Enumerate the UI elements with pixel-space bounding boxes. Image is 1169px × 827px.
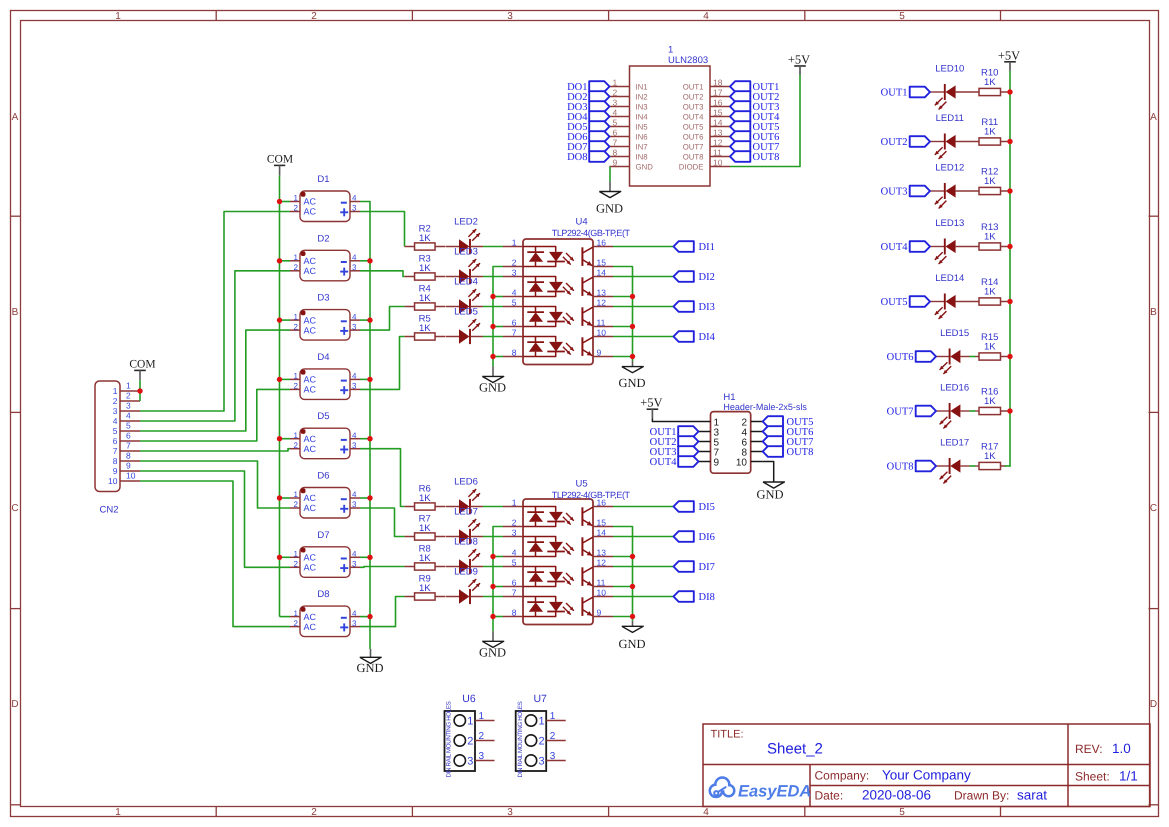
junction minus bus at D2.4 [367, 258, 372, 263]
svg-text:2: 2 [512, 257, 517, 267]
svg-text:U6: U6 [462, 693, 476, 705]
svg-text:AC: AC [304, 266, 317, 276]
LED LED2 [446, 246, 460, 248]
svg-text:LED15: LED15 [940, 328, 969, 339]
junction U5 right GND bus [630, 554, 635, 559]
optocoupler U5 TLP292-4(GB-TP,E(T body [523, 499, 593, 625]
svg-text:DI6: DI6 [699, 532, 715, 543]
svg-text:C: C [1150, 503, 1157, 514]
resistor R8 1K [405, 566, 415, 568]
resistor R17 1K [979, 462, 1001, 469]
svg-text:2: 2 [294, 441, 299, 450]
mounting holes U7 [516, 711, 547, 771]
svg-text:IN3: IN3 [636, 102, 648, 111]
ground GND (bridge bus) [370, 649, 372, 657]
svg-text:3: 3 [512, 267, 517, 277]
wire bridge minus bus to GND [360, 202, 370, 650]
svg-text:LED7: LED7 [454, 507, 478, 518]
svg-text:DI7: DI7 [699, 562, 715, 573]
ground GND (H1) [763, 482, 784, 488]
svg-text:2: 2 [294, 204, 299, 213]
junction minus bus at D5.4 [367, 436, 372, 441]
svg-text:C: C [11, 503, 18, 514]
svg-text:10: 10 [713, 157, 723, 167]
svg-text:U7: U7 [533, 693, 547, 705]
output flag OUT5 (H1) [763, 416, 783, 427]
LED LED17 [936, 465, 950, 467]
ground GND (U5 output side) [632, 621, 634, 627]
svg-text:TITLE:: TITLE: [711, 729, 744, 741]
wire LED15 to R15 [970, 356, 976, 358]
U5 channel 1 input diodes [523, 507, 556, 512]
svg-text:10: 10 [126, 471, 136, 481]
wire COM to D3.1 [280, 319, 291, 321]
junction COM at D6.1 [277, 495, 282, 500]
output flag OUT6 (H1) [763, 426, 783, 437]
svg-text:6: 6 [613, 127, 618, 137]
svg-text:3: 3 [507, 807, 513, 818]
junction +5V bus at R12 [1007, 188, 1012, 193]
svg-text:AC: AC [304, 553, 317, 563]
svg-text:D5: D5 [317, 411, 329, 422]
svg-text:11: 11 [597, 577, 606, 587]
svg-text:GND: GND [479, 381, 506, 395]
resistor R15 1K [979, 353, 1001, 360]
svg-text:1: 1 [294, 609, 299, 618]
wire +5V to H1 pin1 [652, 418, 698, 421]
LED LED12 [930, 190, 945, 192]
wire CN2.8 to D6.2 [140, 461, 290, 508]
svg-text:B: B [12, 307, 19, 318]
svg-text:13: 13 [597, 547, 607, 557]
svg-text:REV:: REV: [1075, 742, 1103, 756]
U4 channel 1 input diodes [523, 247, 556, 252]
input flag OUT3 (H1) [678, 446, 698, 457]
svg-text:10: 10 [597, 327, 607, 337]
wire U4 to DI3 [613, 306, 674, 308]
svg-text:4: 4 [352, 194, 357, 203]
title block frame [703, 724, 1150, 807]
LED LED14 [930, 301, 945, 303]
svg-text:OUT1: OUT1 [683, 82, 704, 91]
wire U4 pins 2/4/6/8 to GND bus [493, 267, 503, 367]
svg-text:AC: AC [304, 493, 317, 503]
wire LED5 to U4 pin [483, 336, 503, 338]
svg-text:9: 9 [113, 466, 118, 476]
svg-text:1K: 1K [984, 127, 996, 138]
input flag DO1 [589, 81, 609, 92]
LED LED7 [446, 536, 460, 538]
svg-text:1: 1 [294, 372, 299, 381]
svg-text:9: 9 [714, 457, 720, 468]
wire D7.3 to R8 [360, 566, 405, 569]
svg-text:1.0: 1.0 [1112, 741, 1131, 756]
input flag DO6 [589, 131, 609, 142]
svg-text:B: B [1150, 307, 1157, 318]
svg-text:AC: AC [304, 325, 317, 335]
output flag OUT7 (U1) [730, 141, 750, 152]
input flag OUT1 (right) [910, 87, 930, 98]
connector H1 body [711, 412, 751, 474]
wire U4 pins 15/13/11/9 to GND bus [613, 267, 633, 362]
wire D8.3 to R9 [360, 597, 405, 627]
svg-text:OUT8: OUT8 [787, 447, 814, 458]
wire +5V bus right column [1009, 71, 1011, 466]
H1 pins [699, 421, 711, 423]
junction minus bus at D6.4 [367, 495, 372, 500]
svg-text:2: 2 [294, 560, 299, 569]
svg-text:1: 1 [115, 11, 121, 22]
svg-text:IN8: IN8 [636, 152, 648, 161]
svg-text:AC: AC [304, 503, 317, 513]
svg-text:1: 1 [539, 715, 545, 727]
svg-text:1: 1 [294, 550, 299, 559]
frame row ticks [11, 215, 21, 217]
input flag OUT8 (right) [916, 461, 936, 472]
svg-text:10: 10 [736, 457, 748, 468]
svg-text:5: 5 [899, 11, 905, 22]
wire U5 to DI6 [613, 536, 674, 538]
svg-text:IN5: IN5 [636, 122, 649, 131]
LED LED6 [446, 506, 460, 508]
IC U1 ULN2803 body [630, 66, 711, 186]
svg-text:GND: GND [479, 645, 506, 659]
wire U5 to DI7 [613, 566, 674, 568]
svg-text:AC: AC [304, 622, 317, 632]
wire U5 to DI8 [613, 596, 674, 598]
svg-text:1: 1 [512, 237, 517, 247]
wire D1.3 to R2 [360, 212, 405, 247]
U1 left pins IN1-IN8 and GND [610, 86, 630, 88]
wire COM to D2.1 [280, 260, 291, 262]
svg-text:3: 3 [352, 560, 357, 569]
svg-text:3: 3 [113, 406, 118, 416]
svg-text:5: 5 [512, 297, 517, 307]
U4 channel 2 phototransistor [581, 277, 583, 296]
svg-text:8: 8 [613, 147, 618, 157]
resistor R2 1K [405, 246, 415, 248]
junction U4 left GND bus [490, 294, 495, 299]
svg-text:CN2: CN2 [99, 505, 118, 516]
input flag DO2 [589, 91, 609, 102]
svg-text:1: 1 [113, 386, 118, 396]
svg-text:1K: 1K [419, 263, 431, 274]
svg-text:AC: AC [304, 434, 317, 444]
LED LED15 [936, 356, 950, 358]
svg-text:7: 7 [613, 137, 618, 147]
svg-text:2: 2 [311, 11, 317, 22]
svg-text:3: 3 [352, 500, 357, 509]
U4 channel 4 light arrows [566, 343, 574, 351]
svg-text:12: 12 [713, 137, 723, 147]
svg-text:7: 7 [512, 587, 517, 597]
wire CN2.3 to D1.2 [140, 212, 290, 412]
svg-text:4: 4 [352, 312, 357, 321]
svg-text:2: 2 [467, 735, 473, 747]
svg-text:3: 3 [467, 755, 473, 767]
svg-text:OUT5: OUT5 [683, 122, 704, 131]
wire COM bus vertical [279, 176, 281, 617]
svg-text:OUT8: OUT8 [683, 152, 704, 161]
svg-text:AC: AC [304, 563, 317, 573]
svg-text:2: 2 [512, 517, 517, 527]
svg-text:8: 8 [512, 607, 517, 617]
input flag OUT6 (right) [916, 351, 936, 362]
wire D6.3 to R7 [360, 508, 405, 537]
svg-text:DIODE: DIODE [679, 162, 704, 171]
svg-text:1: 1 [550, 711, 556, 722]
wire U5 pins 2/4/6/8 to GND bus [493, 527, 503, 632]
svg-text:9: 9 [597, 347, 602, 357]
U5 right pins 16-9 [593, 506, 613, 508]
svg-text:6: 6 [512, 317, 517, 327]
wire LED7 to U5 pin [483, 536, 503, 538]
svg-text:D4: D4 [317, 352, 329, 363]
output flag DI7 [674, 561, 694, 572]
mounting holes U6 [445, 711, 476, 771]
svg-text:14: 14 [713, 117, 723, 127]
svg-text:3: 3 [539, 755, 545, 767]
svg-text:LED16: LED16 [940, 382, 969, 393]
wire COM to D7.1 [280, 556, 291, 558]
resistor R7 1K [405, 536, 415, 538]
svg-text:DI2: DI2 [699, 272, 715, 283]
wire H1 pin10 to GND [763, 462, 774, 483]
svg-text:1: 1 [126, 381, 131, 391]
svg-text:sarat: sarat [1017, 787, 1047, 802]
svg-text:IN2: IN2 [636, 92, 648, 101]
svg-text:1K: 1K [419, 523, 431, 534]
svg-text:LED9: LED9 [454, 567, 478, 578]
svg-text:GND: GND [356, 661, 383, 675]
wire CN2.10 to D8.2 [140, 481, 290, 627]
output flag OUT7 (H1) [763, 436, 783, 447]
svg-text:12: 12 [597, 557, 607, 567]
bridge rectifier D6 [300, 488, 350, 519]
U5 channel 2 input diodes [523, 537, 556, 542]
U5 channel 4 phototransistor [581, 597, 583, 616]
svg-text:GND: GND [756, 488, 783, 502]
svg-text:7: 7 [126, 441, 131, 451]
svg-text:AC: AC [304, 207, 317, 217]
svg-text:D3: D3 [317, 293, 329, 304]
bridge rectifier D3 [300, 310, 350, 341]
svg-text:1: 1 [467, 715, 473, 727]
wire U4 to DI4 [613, 336, 674, 338]
output flag DI6 [674, 531, 694, 542]
wire D4.3 to R5 [360, 337, 405, 390]
wire U4 to DI2 [613, 276, 674, 278]
svg-text:12: 12 [597, 297, 607, 307]
svg-text:18: 18 [713, 77, 723, 87]
svg-text:LED11: LED11 [936, 113, 964, 124]
U5 channel 1 light arrows [566, 513, 574, 521]
svg-text:3: 3 [507, 11, 513, 22]
svg-text:15: 15 [597, 517, 607, 527]
input flag OUT2 (right) [910, 136, 930, 147]
wire COM to D4.1 [280, 378, 291, 380]
svg-text:1K: 1K [419, 553, 431, 564]
svg-text:1K: 1K [419, 293, 431, 304]
svg-text:2: 2 [550, 731, 556, 742]
output flag OUT6 (U1) [730, 131, 750, 142]
svg-text:DO8: DO8 [567, 152, 587, 163]
svg-text:15: 15 [597, 257, 607, 267]
svg-text:1K: 1K [984, 342, 996, 353]
output flag OUT8 (H1) [763, 446, 783, 457]
resistor R12 1K [979, 187, 1001, 194]
input flag OUT1 (H1) [678, 426, 698, 437]
junction COM at D4.1 [277, 377, 282, 382]
resistor R10 1K [979, 88, 1001, 95]
svg-text:1: 1 [294, 253, 299, 262]
svg-text:1: 1 [115, 807, 121, 818]
U4 left pins 1-8 [503, 246, 523, 248]
wire LED9 to U5 pin [483, 596, 503, 598]
svg-text:4: 4 [512, 547, 517, 557]
resistor R13 1K [979, 243, 1001, 250]
svg-text:GND: GND [618, 637, 645, 651]
wire D5.3 to R6 [360, 449, 405, 507]
U4 channel 4 phototransistor [581, 337, 583, 356]
svg-text:IN6: IN6 [636, 132, 648, 141]
svg-text:DIN RAIL MOUNTING HOLES: DIN RAIL MOUNTING HOLES [517, 701, 524, 777]
output flag OUT1 (U1) [730, 81, 750, 92]
svg-text:1K: 1K [419, 493, 431, 504]
U4 channel 1 phototransistor [581, 247, 583, 266]
svg-text:4: 4 [126, 411, 131, 421]
svg-text:U5: U5 [576, 479, 588, 490]
svg-text:9: 9 [126, 461, 131, 471]
svg-text:COM: COM [267, 154, 293, 166]
svg-text:COM: COM [129, 358, 155, 370]
resistor R14 1K [979, 298, 1001, 305]
svg-text:4: 4 [352, 253, 357, 262]
svg-text:DIN RAIL MOUNTING HOLES: DIN RAIL MOUNTING HOLES [446, 701, 453, 777]
svg-text:U4: U4 [576, 217, 588, 228]
svg-text:OUT7: OUT7 [683, 142, 704, 151]
wire D7.4 to minus bus [360, 556, 370, 558]
svg-text:1: 1 [294, 490, 299, 499]
wire LED17 to R17 [970, 465, 976, 467]
svg-text:OUT2: OUT2 [683, 92, 704, 101]
junction +5V bus at R10 [1007, 89, 1012, 94]
LED LED3 [446, 276, 460, 278]
svg-text:Company:: Company: [815, 768, 870, 782]
svg-text:7: 7 [113, 446, 118, 456]
svg-text:4: 4 [352, 550, 357, 559]
svg-text:2: 2 [294, 263, 299, 272]
wire CN2.6 to D4.2 [140, 389, 290, 441]
svg-text:2: 2 [539, 735, 545, 747]
svg-text:16: 16 [597, 237, 607, 247]
U5 channel 3 input diodes [523, 567, 556, 572]
svg-text:1: 1 [512, 497, 517, 507]
junction minus bus at D8.4 [367, 614, 372, 619]
svg-text:3: 3 [352, 619, 357, 628]
output flag OUT4 (U1) [730, 111, 750, 122]
svg-text:4: 4 [512, 287, 517, 297]
wire LED8 to U5 pin [483, 566, 503, 568]
svg-text:IN1: IN1 [636, 82, 648, 91]
wire U5 pins 15/13/11/9 to GND bus [613, 527, 633, 621]
LED LED10 [930, 91, 945, 93]
svg-text:4: 4 [352, 431, 357, 440]
svg-text:4: 4 [703, 807, 709, 818]
svg-text:+5V: +5V [998, 48, 1020, 62]
svg-text:OUT1: OUT1 [881, 88, 908, 99]
U5 left pins 1-8 [503, 506, 523, 508]
junction COM at D3.1 [277, 317, 282, 322]
input flag OUT3 (right) [910, 186, 930, 197]
svg-text:5: 5 [613, 117, 618, 127]
svg-text:2020-08-06: 2020-08-06 [862, 788, 931, 803]
svg-text:6: 6 [113, 436, 118, 446]
U4 channel 3 input diodes [523, 307, 556, 312]
U5 channel 1 phototransistor [581, 507, 583, 526]
output flag DI4 [674, 331, 694, 342]
svg-text:AC: AC [304, 197, 317, 207]
svg-text:4: 4 [352, 372, 357, 381]
svg-text:4: 4 [703, 11, 709, 22]
output flag DI3 [674, 301, 694, 312]
input flag DO7 [589, 141, 609, 152]
wire D2.4 to minus bus [360, 260, 370, 262]
input flag DO3 [589, 101, 609, 112]
svg-text:9: 9 [613, 157, 618, 167]
svg-text:OUT7: OUT7 [887, 407, 914, 418]
svg-text:2: 2 [294, 322, 299, 331]
output flag DI8 [674, 591, 694, 602]
svg-text:LED10: LED10 [935, 63, 964, 74]
LED LED5 [446, 336, 460, 338]
svg-text:10: 10 [597, 587, 607, 597]
svg-text:1: 1 [294, 431, 299, 440]
U4 channel 4 input diodes [523, 337, 556, 342]
svg-text:EasyEDA: EasyEDA [738, 783, 811, 801]
svg-text:1K: 1K [984, 287, 996, 298]
U4 channel 3 phototransistor [581, 307, 583, 326]
LED LED4 [446, 306, 460, 308]
svg-text:D8: D8 [317, 589, 329, 600]
input flag OUT4 (right) [910, 241, 930, 252]
svg-text:OUT4: OUT4 [683, 112, 704, 121]
svg-text:AC: AC [304, 444, 317, 454]
svg-text:3: 3 [550, 751, 556, 762]
svg-text:DI1: DI1 [699, 242, 715, 253]
wire CN2.9 to D7.2 [140, 471, 290, 567]
junction +5V bus at R14 [1007, 299, 1012, 304]
ground GND (U4 output side) [632, 361, 634, 367]
bridge rectifier D4 [300, 369, 350, 400]
U1 right pins OUT1-OUT8 and DIODE [710, 86, 730, 88]
svg-text:DI3: DI3 [699, 302, 715, 313]
svg-text:17: 17 [713, 87, 723, 97]
bridge rectifier D7 [300, 547, 350, 578]
svg-text:2: 2 [294, 500, 299, 509]
wire COM to D1.1 [280, 201, 291, 203]
svg-text:3: 3 [352, 204, 357, 213]
U4 channel 2 input diodes [523, 277, 556, 282]
svg-text:Sheet:: Sheet: [1075, 770, 1110, 784]
wire D2.3 to R3 [360, 271, 405, 277]
svg-text:4: 4 [352, 490, 357, 499]
svg-text:4: 4 [613, 107, 618, 117]
wire D6.4 to minus bus [360, 497, 370, 499]
svg-text:LED3: LED3 [454, 247, 478, 258]
svg-text:LED5: LED5 [454, 307, 478, 318]
svg-text:4: 4 [113, 416, 118, 426]
